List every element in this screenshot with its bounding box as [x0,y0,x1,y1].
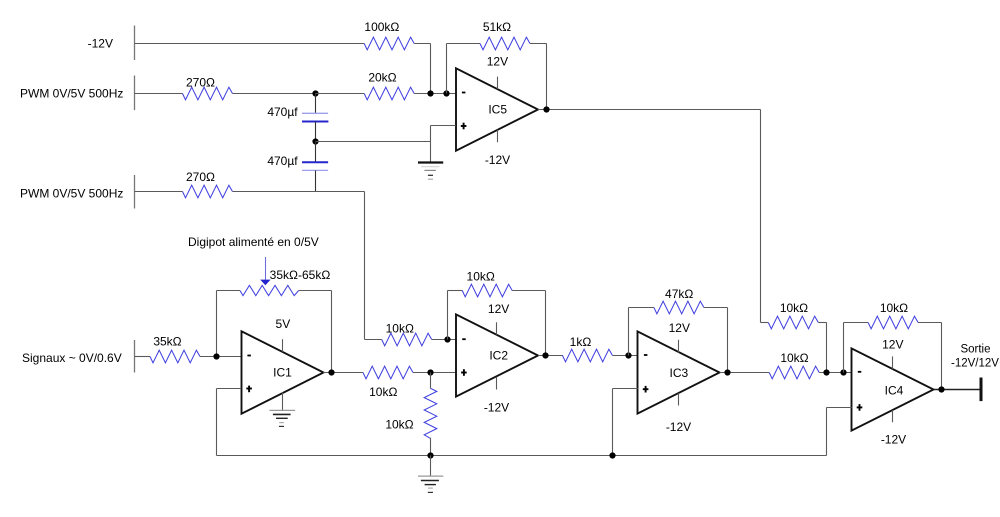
junction IC1 minus node [213,353,219,359]
svg-text:10kΩ: 10kΩ [386,321,414,335]
junction IC4 output node [938,386,944,392]
wire IC4 plus input [827,407,852,409]
pin IC5 minus [462,92,466,94]
wire C2 bottom lead to PWM2 net [315,170,317,191]
op-amp IC4 body [852,348,934,430]
resistor 10kΩ IC2 feedback [462,284,512,297]
svg-text:PWM 0V/5V 500Hz: PWM 0V/5V 500Hz [20,187,123,201]
pin IC3 V+ stub [678,340,680,353]
pin IC4 V- stub [892,410,894,422]
op-amp IC1 body [242,331,324,413]
resistor 1kΩ IC2 out to IC3 minus [563,349,613,362]
svg-text:Signaux ~ 0V/0.6V: Signaux ~ 0V/0.6V [22,351,122,365]
wire 10k to IC2 plus [413,372,456,374]
svg-text:10kΩ: 10kΩ [385,418,413,432]
resistor 20kΩ [364,87,414,100]
junction IC2 plus node [427,369,433,375]
wire PWM1 terminal to 270R [135,93,183,95]
wire IC3 feedback left leg [628,308,630,356]
wire pot left lead [217,290,241,292]
wire 10k to IC2 minus [432,339,456,341]
svg-text:IC3: IC3 [670,366,689,380]
svg-text:-12V: -12V [88,37,113,51]
svg-text:-12V: -12V [485,153,510,167]
svg-text:-12V/12V: -12V/12V [951,357,999,369]
wire IC5 output down right side [760,110,762,323]
ground bus symbol [418,476,443,492]
op-amp IC2 body [456,314,538,396]
svg-text:12V: 12V [882,338,903,352]
svg-text:5V: 5V [276,317,291,331]
wire IC4 output [934,389,981,391]
junction IC2 minus node [444,336,450,342]
pin IC4 minus [858,371,862,373]
ground IC1 V- [270,410,296,426]
wire 10k to IC4 minus [819,372,852,374]
svg-text:12V: 12V [669,321,690,335]
wire feedback top left [447,43,481,45]
wire pot right lead [299,290,332,292]
svg-text:-12V: -12V [484,401,509,415]
resistor 10kΩ IC3 out to IC4 minus [769,366,819,379]
junction IC4 minus node 2 [840,369,846,375]
svg-text:PWM 0V/5V 500Hz: PWM 0V/5V 500Hz [20,87,123,101]
svg-text:12V: 12V [487,54,508,68]
wire IC5 plus input [431,125,456,127]
svg-text:IC1: IC1 [273,365,292,379]
wire vertical 10k upper lead [430,373,432,389]
wire 20k to IC5 minus input [414,93,456,95]
wire cap chain top lead [315,94,317,114]
junction PWM1/cap top [312,90,318,96]
resistor 100kΩ [364,37,414,50]
wire IC5 leg corner to 10k [761,322,769,324]
wire feedback top left [629,307,654,309]
svg-text:270Ω: 270Ω [186,76,215,90]
digipot wiper arrowhead [260,280,270,286]
junction cap mid node [312,138,318,144]
wire C1 bottom lead to mid node [315,122,317,142]
svg-text:100kΩ: 100kΩ [364,20,399,34]
pin IC5 V+ stub [497,77,499,90]
wire 35k to IC1 minus [200,356,241,358]
wire IC3 plus down to ground bus [612,389,614,456]
wire IC5 output [538,109,761,111]
pin IC5 V- stub [497,130,499,142]
wire IC2 feedback right leg [545,291,547,356]
svg-text:10kΩ: 10kΩ [880,301,908,315]
svg-text:12V: 12V [488,302,509,316]
wire IC1 plus down to ground bus [216,389,218,456]
wire IC2 feedback left leg [447,291,449,340]
wire feedback top right [512,290,545,292]
svg-text:Digipot alimenté en 0/5V: Digipot alimenté en 0/5V [188,235,319,249]
pin IC2 V- stub [496,377,498,390]
svg-text:-12V: -12V [666,420,691,434]
resistor 51kΩ feedback [480,37,530,50]
wire digipot wiper arrow shaft [265,257,267,280]
pin IC3 plus [643,388,649,390]
wire 51k feedback right leg [546,44,548,110]
svg-text:20kΩ: 20kΩ [368,70,396,84]
wire feedback top right [918,322,941,324]
junction IC2 output node [542,352,548,358]
wire IC4 feedback right leg [941,323,943,390]
pin IC4 V+ stub [892,356,894,369]
pin IC5 plus [461,125,467,127]
resistor 10kΩ IC1 out to IC2 plus [363,366,413,379]
node PWM1 input terminal [134,76,136,111]
capacitor C1 470µf plate B [302,121,328,123]
svg-text:470µf: 470µf [267,105,298,119]
pin IC2 V+ stub [496,322,498,335]
wire 270R to corner [233,191,365,193]
svg-text:51kΩ: 51kΩ [483,20,511,34]
op-amp IC5 body [456,68,538,150]
resistor 10kΩ IC4 feedback [868,316,918,329]
node Signaux input terminal [134,340,136,373]
svg-text:Sortie: Sortie [960,344,990,356]
wire feedback top left [844,322,869,324]
wire IC3 feedback right leg [727,308,729,373]
node -12V input terminal [134,26,136,61]
junction IC3 output node [724,369,730,375]
svg-text:10kΩ: 10kΩ [369,385,397,399]
junction IC3 minus node [625,352,631,358]
wire IC1 output [323,372,363,374]
svg-text:47kΩ: 47kΩ [665,287,693,301]
wire -12V terminal to 100k resistor [135,43,365,45]
wire IC1 plus input [217,388,242,390]
ground IC5 plus [418,163,443,180]
node PWM2 input terminal [134,175,136,209]
pin IC4 plus [857,406,863,408]
svg-text:10kΩ: 10kΩ [780,301,808,315]
svg-text:10kΩ: 10kΩ [780,351,808,365]
wire cap node to 20k [316,93,365,95]
capacitor C1 470µf plate A [302,112,328,114]
junction IC4 minus node 1 [823,369,829,375]
svg-text:-12V: -12V [881,433,906,447]
wire Signaux terminal to 35k [135,356,151,358]
wire bus down to ground symbol [430,456,432,477]
wire IC2 output [538,355,563,357]
svg-text:470µf: 470µf [267,154,298,168]
pin IC1 plus [246,388,252,390]
wire cap mid node to IC5 plus net [316,141,431,143]
junction 51k feedback / IC5 minus net [443,90,449,96]
wire PWM2 terminal to 270R [135,191,183,193]
junction IC1 output node [328,369,334,375]
wire PWM2 corner down to IC2 minus [364,192,366,340]
potentiometer 35kΩ-65kΩ body [240,285,299,295]
wire IC5 plus to ground [430,126,432,162]
svg-text:IC5: IC5 [488,102,507,116]
wire PWM2 leg to 10k [365,339,382,341]
pin IC1 V- stub to ground [282,393,284,411]
wire feedback top right [704,307,728,309]
wire 51k feedback left leg [446,44,448,94]
wire corner down to IC4 minus node [826,323,828,373]
wire IC4 feedback left leg [843,323,845,373]
junction 100k / IC5 minus net [427,90,433,96]
resistor 270Ω (PWM2) [183,185,233,198]
wire IC3 output [720,372,769,374]
junction IC5 output node [543,106,549,112]
wire IC4 plus down to ground bus [826,408,828,456]
wire mid node to C2 top lead [315,142,317,163]
svg-text:10kΩ: 10kΩ [467,270,495,284]
pin IC2 plus [461,372,467,374]
resistor 270Ω (PWM1) [183,87,233,100]
resistor 10kΩ PWM2 to IC2 minus [382,333,432,346]
wire 270R to cap node [233,93,316,95]
node Sortie output terminal [980,378,983,402]
wire 100k corner down to IC5 minus net [430,44,432,94]
wire feedback top right [530,43,547,45]
wire 1k to IC3 minus [613,355,638,357]
pin IC1 V+ stub [282,339,284,352]
pin IC3 minus [644,354,648,356]
svg-text:IC4: IC4 [885,384,904,398]
svg-text:IC2: IC2 [489,348,508,362]
wire vertical 10k lower lead [430,438,432,456]
svg-text:270Ω: 270Ω [186,170,215,184]
wire ground bus [217,455,827,457]
resistor 47kΩ IC3 feedback [654,301,704,314]
wire 10k to corner [818,322,826,324]
pin IC1 minus [247,355,251,357]
svg-text:35kΩ: 35kΩ [153,335,181,349]
svg-text:35kΩ-65kΩ: 35kΩ-65kΩ [270,268,331,282]
wire IC3 plus input [613,388,638,390]
capacitor C2 470µf plate A [302,161,328,163]
svg-text:1kΩ: 1kΩ [570,335,592,349]
wire 100k to corner [414,43,430,45]
resistor 35kΩ input [150,350,200,363]
wire feedback top left [448,290,463,292]
wire pot left leg down to IC1 minus [216,291,218,357]
capacitor C2 470µf plate B [302,169,328,171]
pin IC3 V- stub [678,393,680,405]
junction bus / 10k ground node [427,452,433,458]
pin IC2 minus [462,338,466,340]
junction bus / IC3 plus node [609,452,615,458]
resistor 10kΩ to ground (vertical) [424,388,437,438]
op-amp IC3 body [638,331,720,413]
resistor 10kΩ from IC5 [768,316,818,329]
wire pot right leg down to IC1 output [331,291,333,373]
